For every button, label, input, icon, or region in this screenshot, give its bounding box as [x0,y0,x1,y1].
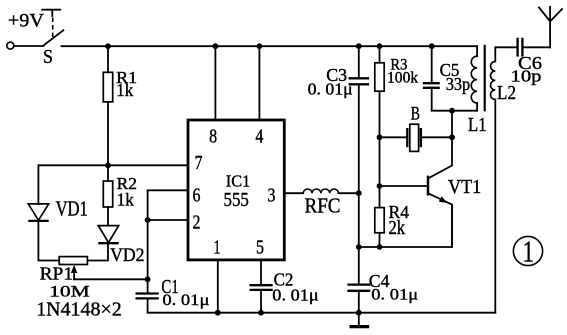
wire wiper to pin2/6 node [74,278,148,280]
wire pin5 to C2 [260,260,262,285]
node rail-pin8 [213,43,219,49]
svg-text:33p: 33p [446,74,471,94]
wire switch terminal to lever [14,45,43,47]
node rail-C2 [258,310,264,316]
wire VD1 to RP1 left [38,221,59,261]
wire C4 to ground rail [358,291,360,312]
svg-text:0. 01μ: 0. 01μ [162,292,209,309]
wire bottom ground rail [148,312,496,314]
wire R2 to VD2 [107,207,109,226]
svg-text:1N4148×2: 1N4148×2 [36,298,122,320]
potentiometer RP1 [59,257,87,265]
svg-text:7: 7 [195,152,203,174]
node pin7-R1 junction [105,162,111,168]
switch S top bar [42,10,60,16]
svg-text:0. 01μ: 0. 01μ [371,287,418,304]
wire C2 to ground rail [260,290,262,312]
wire pin7 net [38,164,188,166]
capacitor C1 [136,294,159,299]
antenna [539,7,562,48]
wire C5 to tank bottom [431,88,433,110]
node tank-collector [449,108,455,114]
wire emitter return [359,205,452,247]
wire down to C4 [358,247,360,284]
capacitor C6 [518,38,523,57]
capacitor C3 [349,78,370,84]
node pin2 junction [145,217,151,223]
base bar [427,176,430,196]
svg-text:VT1: VT1 [448,176,481,198]
capacitor C4 [347,285,370,291]
svg-text:RFC: RFC [305,194,341,218]
wire rail to R1 [107,46,109,72]
wire pin4 to rail [258,46,260,120]
emitter lead with arrow [429,194,452,247]
capacitor C2 [250,285,273,290]
wire pin7 to R2 [107,165,109,181]
svg-text:2k: 2k [389,218,406,239]
wire rail to R3 [379,46,381,63]
inductor L2 [491,47,496,312]
node rail-R1 [105,43,111,49]
wire to VD1 [37,165,39,204]
switch S dashed linkage [52,18,54,41]
wire pin2/6 node down to C1 [147,220,149,293]
svg-text:1k: 1k [117,189,134,209]
node rail-C5 [429,43,435,49]
inductor L1 [471,46,477,111]
wire pin6 net [148,190,188,220]
svg-text:1k: 1k [116,80,133,100]
wire C6 to antenna [523,46,550,48]
node B right [449,134,455,140]
wire base node to crystal [380,136,407,138]
wire L2 to C6 [495,46,516,48]
wire pin3 to RFC [284,192,303,194]
switch S input terminal [7,42,14,49]
wire crystal to collector line [422,136,452,138]
svg-text:+9V: +9V [8,10,44,31]
node emitter return at C4 line [356,244,362,250]
svg-text:5: 5 [256,237,264,259]
diode VD1 [28,204,48,221]
node rail-pin1 [215,310,221,316]
diode VD2 [98,226,118,244]
collector lead [429,111,452,178]
node rail-C3 [356,43,362,49]
svg-text:0. 01μ: 0. 01μ [272,285,319,304]
svg-text:IC1: IC1 [226,171,250,190]
inductor RFC [303,189,338,193]
wire rail to C5 [431,46,433,83]
node B left [377,134,383,140]
wire pin2 net [148,219,188,221]
svg-text:6: 6 [193,185,201,207]
node rail-C4 [356,310,362,316]
wire C3 down through RFC node to emitter line [358,85,360,247]
svg-text:4: 4 [255,126,263,148]
svg-text:0. 01μ: 0. 01μ [308,80,353,99]
capacitor C5 [423,83,440,88]
svg-text:RP1: RP1 [40,264,74,284]
svg-text:8: 8 [209,126,217,148]
svg-text:100k: 100k [387,69,418,86]
RP1 wiper arrow [71,265,77,280]
svg-text:B: B [411,103,420,124]
svg-text:2: 2 [193,212,201,234]
node wiper junction [145,276,151,282]
wire pin8 to rail [214,46,216,120]
wire top supply rail [62,45,478,47]
svg-text:VD1: VD1 [56,196,88,220]
base wire [380,185,427,187]
core [484,45,486,112]
node base junction [377,183,383,189]
resistor R1 [103,72,112,102]
wire R1 to pin7 line [107,102,109,165]
node R4-emitter junction [377,244,383,250]
resistor R4 [375,208,384,233]
svg-text:L2: L2 [497,83,516,104]
figure number 1 [513,234,542,269]
svg-text:555: 555 [224,189,249,211]
wire C1 to ground rail [147,299,149,313]
wire R4 to emitter return [379,233,381,247]
svg-text:VD2: VD2 [110,245,144,266]
op-amp U1: IC1 555 timer box [188,120,284,260]
svg-text:S: S [43,46,53,68]
wire R3 down to R4 [379,91,381,207]
node rail-R3 [377,43,383,49]
wire VD2 to RP1 right [87,243,108,260]
svg-text:10p: 10p [511,67,542,86]
svg-text:1: 1 [214,237,221,259]
resistor R2 [103,181,112,207]
svg-text:L1: L1 [468,114,487,136]
switch S lever [44,30,64,45]
wire pin1 to ground rail [217,260,219,313]
svg-text:3: 3 [268,185,276,207]
transistor VT1 [380,111,453,247]
resistor R3 [375,63,384,91]
node RFC output [356,190,362,196]
svg-text:1: 1 [523,234,535,269]
node rail-pin4 [257,43,263,49]
wire tank bottom [432,110,477,112]
wire rail to C3 [358,46,360,78]
ground [350,313,370,327]
wire RFC to C3/C4 line [339,192,359,194]
